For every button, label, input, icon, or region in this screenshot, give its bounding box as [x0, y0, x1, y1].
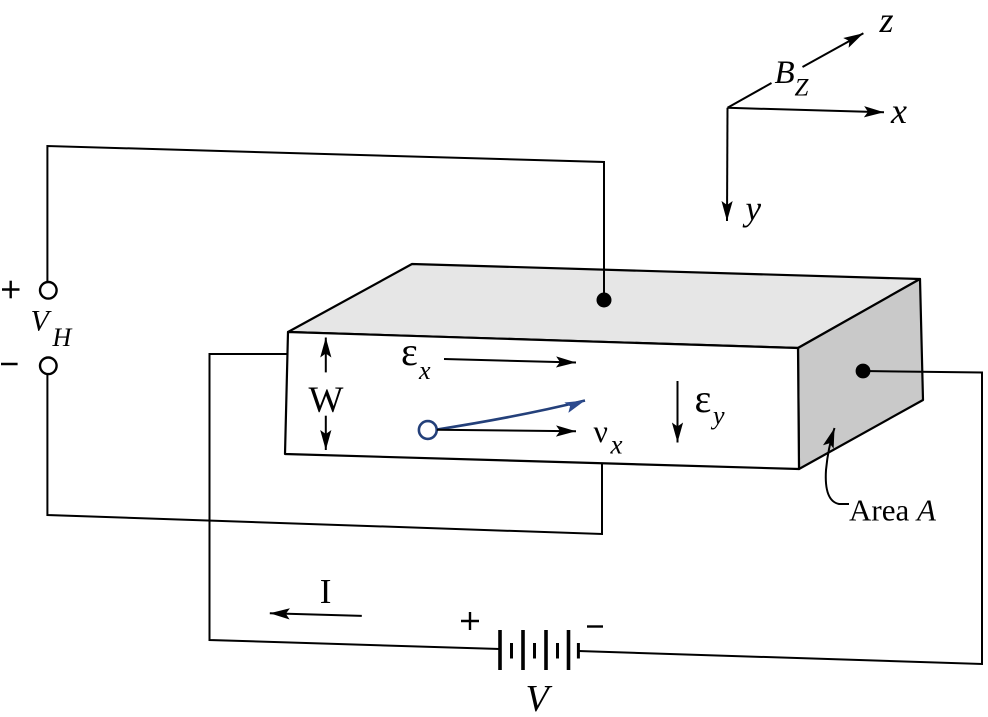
electric field E_y arrow — [677, 381, 679, 443]
label W — [309, 380, 344, 421]
svg-text:x: x — [610, 430, 623, 460]
label V_H — [31, 305, 73, 353]
right contact dot — [856, 364, 871, 379]
label z — [879, 0, 894, 40]
V_H + terminal circle — [40, 282, 57, 299]
svg-text:V: V — [31, 305, 53, 338]
svg-text:I: I — [320, 572, 332, 611]
svg-text:x: x — [418, 356, 431, 385]
battery V — [500, 630, 578, 670]
label I — [320, 572, 332, 611]
electron open circle — [419, 421, 437, 439]
svg-text:ε: ε — [401, 329, 418, 374]
label v_x — [594, 413, 623, 460]
svg-text:V: V — [526, 678, 553, 717]
wire from V_H - terminal to bottom contact — [47, 374, 602, 534]
svg-text:x: x — [890, 91, 907, 131]
wire from battery + terminal to slab left face — [210, 354, 501, 649]
svg-text:W: W — [309, 380, 344, 421]
svg-text:B: B — [775, 55, 795, 91]
wire from battery - terminal to right contact — [578, 371, 982, 664]
V_H - terminal circle — [40, 358, 57, 375]
electric field E_x arrow — [444, 359, 576, 363]
wire from V_H + terminal to top contact — [47, 146, 604, 300]
label x — [890, 91, 907, 131]
label B_Z — [775, 55, 810, 102]
svg-text:ε: ε — [695, 376, 712, 421]
plus sign at battery — [461, 612, 479, 630]
label y — [743, 189, 762, 228]
slab top face — [288, 264, 920, 348]
svg-text:H: H — [52, 323, 73, 352]
electron drift curved arrow (blue) — [437, 401, 585, 430]
velocity v_x arrow — [437, 430, 576, 431]
y axis arrow — [726, 108, 729, 221]
label V (battery) — [526, 678, 553, 717]
minus sign at battery — [587, 625, 603, 627]
slab right face (area A) — [798, 279, 923, 469]
svg-text:Z: Z — [795, 75, 810, 102]
svg-text:Area A: Area A — [849, 493, 937, 528]
label Area A — [849, 493, 937, 528]
minus sign at V_H — [1, 363, 18, 365]
current arrow I — [270, 613, 362, 616]
svg-text:z: z — [879, 0, 894, 40]
label epsilon_x — [401, 329, 431, 385]
plus sign at V_H — [2, 281, 20, 299]
svg-text:y: y — [710, 401, 725, 430]
z axis arrow — [728, 33, 864, 108]
slab front face — [285, 332, 799, 469]
svg-text:ν: ν — [594, 413, 608, 449]
label epsilon_y — [695, 376, 726, 430]
svg-text:y: y — [743, 189, 762, 228]
width W double arrow — [325, 338, 327, 451]
top contact dot — [597, 293, 612, 308]
Area A leader arrow — [826, 428, 849, 504]
x axis arrow — [728, 108, 885, 113]
